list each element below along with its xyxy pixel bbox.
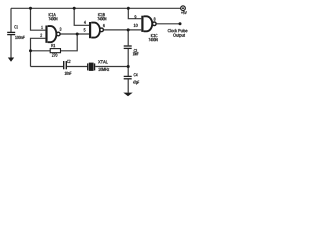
label C4 designator xyxy=(134,73,138,76)
wire R1 left lead xyxy=(31,50,51,52)
label 47pF value of C4 xyxy=(133,81,139,85)
wire IC1A pin 2 to feedback vertical xyxy=(31,38,46,66)
label pin 9 xyxy=(135,15,137,18)
wire IC1B output to IC1C pin 10 xyxy=(104,29,142,31)
gate IC1C NAND xyxy=(141,16,156,32)
label pin 1 xyxy=(41,26,42,29)
terminal +5V xyxy=(181,6,186,11)
label pin 8 xyxy=(154,17,156,20)
node junction IC1B output / C3 xyxy=(127,28,130,31)
capacitor C1 xyxy=(7,32,15,34)
crystal XTAL xyxy=(88,63,95,71)
label 10nF value of C2 xyxy=(65,72,72,75)
label +5V supply label xyxy=(181,11,187,14)
node junction feedback vertical / R1 xyxy=(29,49,32,52)
label pin 4 xyxy=(84,21,86,24)
wire IC1B output node down to C3 xyxy=(127,30,129,46)
capacitor C4 xyxy=(124,76,132,78)
label IC1C designator xyxy=(151,34,157,37)
wire rail down to IC1C pin 9 xyxy=(128,8,141,18)
label XTAL designator xyxy=(98,60,108,63)
node junction bottom line / C3-C4 xyxy=(127,65,130,68)
ground arrow under C1 xyxy=(8,58,14,62)
wire C4 down to ground arrow xyxy=(127,79,129,93)
node junction rail / pin 4 xyxy=(73,7,76,10)
node junction rail / pin 1 xyxy=(29,7,32,10)
label 270 value of R1 xyxy=(52,54,57,57)
node junction rail / pin 9 xyxy=(127,7,130,10)
label R1 designator xyxy=(51,44,55,47)
wire C1 top lead xyxy=(10,8,12,32)
label IC1A designator xyxy=(49,13,56,16)
capacitor C2 xyxy=(64,61,67,69)
label IC1B designator xyxy=(98,13,105,16)
label pin 10 xyxy=(134,24,138,27)
wire rail down to IC1B pin 4 xyxy=(74,8,89,25)
wire IC1A output to IC1B pin 5 xyxy=(60,33,89,35)
ground arrow under C4 xyxy=(123,93,132,97)
wire +5V supply rail xyxy=(11,7,181,9)
wire XTAL to C3/C4 node xyxy=(95,66,128,68)
label C3 designator xyxy=(134,49,137,52)
wire C2 to XTAL xyxy=(67,66,88,68)
wire C3 to C4 xyxy=(127,48,129,76)
label pin 3 xyxy=(60,28,62,31)
label Clock Pulse text xyxy=(168,29,188,32)
label C1 designator xyxy=(14,25,17,28)
label pin 5 xyxy=(84,28,86,31)
resistor R1 xyxy=(50,49,60,53)
wire rail down to IC1A pin 1 xyxy=(31,8,46,30)
terminal Clock Pulse Output xyxy=(179,22,182,25)
label 100nF value of C1 xyxy=(15,36,24,39)
wire R1 right lead up to IC1A output node xyxy=(61,34,78,51)
wire IC1C output to terminal xyxy=(156,23,180,25)
capacitor C3 xyxy=(124,46,132,48)
label pin 2 xyxy=(40,34,42,37)
label 10MHz value of XTAL xyxy=(98,68,109,71)
label 7400N value of IC1A xyxy=(49,17,58,20)
label pin 6 xyxy=(103,24,105,27)
label 7400N value of IC1C xyxy=(149,38,158,41)
wire C1 bottom lead xyxy=(10,35,12,58)
node junction IC1A output / R1 xyxy=(76,33,79,36)
gate IC1B NAND xyxy=(89,22,103,38)
label 10nF value of C3 xyxy=(133,52,139,55)
label Output text xyxy=(173,34,185,38)
label C2 designator xyxy=(67,60,70,63)
label 7400N value of IC1B xyxy=(98,17,107,20)
gate IC1A NAND xyxy=(45,26,60,43)
wire feedback bottom line to C2 xyxy=(31,66,64,68)
